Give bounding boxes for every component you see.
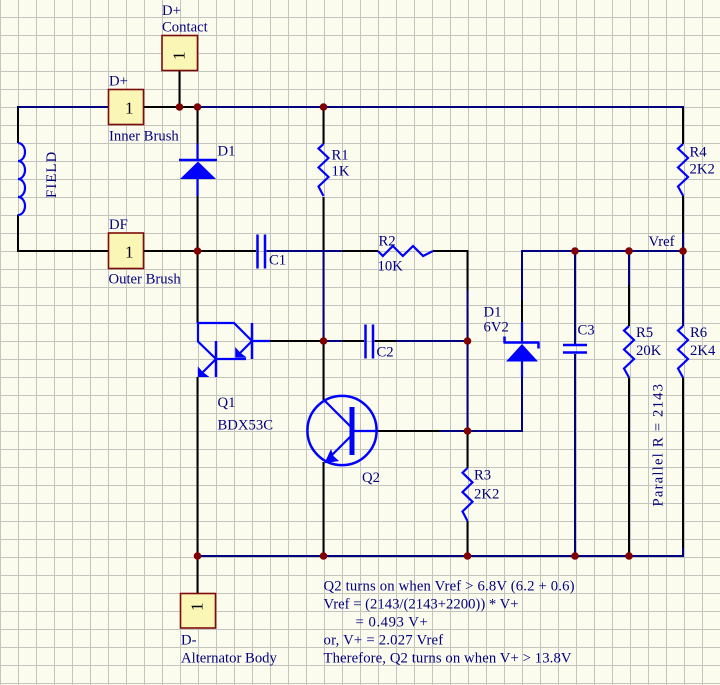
svg-text:1: 1 <box>125 243 134 262</box>
svg-text:2K2: 2K2 <box>474 487 499 503</box>
svg-text:20K: 20K <box>636 343 662 359</box>
svg-text:Therefore, Q2 turns on when V+: Therefore, Q2 turns on when V+ > 13.8V <box>324 651 572 667</box>
svg-text:R2: R2 <box>379 234 396 250</box>
svg-text:2K2: 2K2 <box>690 162 715 178</box>
svg-text:Vref = (2143/(2143+2200)) * V+: Vref = (2143/(2143+2200)) * V+ <box>324 597 519 613</box>
svg-text:BDX53C: BDX53C <box>218 418 274 434</box>
svg-text:1: 1 <box>188 603 207 612</box>
svg-text:Alternator Body: Alternator Body <box>181 651 278 667</box>
svg-text:Q1: Q1 <box>218 395 236 411</box>
svg-text:R1: R1 <box>332 148 349 164</box>
svg-text:Q2: Q2 <box>362 470 380 486</box>
svg-text:Q2 turns on when Vref > 6.8V (: Q2 turns on when Vref > 6.8V (6.2 + 0.6) <box>324 579 575 595</box>
svg-text:D+: D+ <box>109 74 128 90</box>
svg-text:DF: DF <box>109 217 128 233</box>
svg-text:6V2: 6V2 <box>484 320 509 336</box>
svg-text:Outer Brush: Outer Brush <box>109 272 182 288</box>
svg-text:Vref: Vref <box>649 234 675 250</box>
svg-text:2K4: 2K4 <box>690 343 716 359</box>
svg-text:R3: R3 <box>474 468 491 484</box>
svg-text:Contact: Contact <box>162 20 208 36</box>
svg-text:R5: R5 <box>636 325 653 341</box>
svg-text:1: 1 <box>125 99 134 118</box>
svg-text:or, V+ = 2.027 Vref: or, V+ = 2.027 Vref <box>324 633 444 649</box>
svg-text:C2: C2 <box>377 345 394 361</box>
svg-text:C1: C1 <box>269 253 286 269</box>
svg-text:D1: D1 <box>484 305 502 321</box>
svg-text:FIELD: FIELD <box>44 151 60 198</box>
svg-text:C3: C3 <box>578 323 595 339</box>
svg-text:1K: 1K <box>332 164 350 180</box>
svg-text:R6: R6 <box>690 325 707 341</box>
svg-text:= 0.493 V+: = 0.493 V+ <box>356 615 429 631</box>
svg-text:D1: D1 <box>218 144 236 160</box>
svg-text:10K: 10K <box>378 259 404 275</box>
svg-text:Inner Brush: Inner Brush <box>109 129 179 145</box>
svg-text:D+: D+ <box>162 3 181 19</box>
svg-text:Parallel R = 2143: Parallel R = 2143 <box>651 383 667 507</box>
svg-text:R4: R4 <box>690 145 708 161</box>
svg-text:1: 1 <box>169 52 188 61</box>
svg-text:D-: D- <box>181 633 197 649</box>
